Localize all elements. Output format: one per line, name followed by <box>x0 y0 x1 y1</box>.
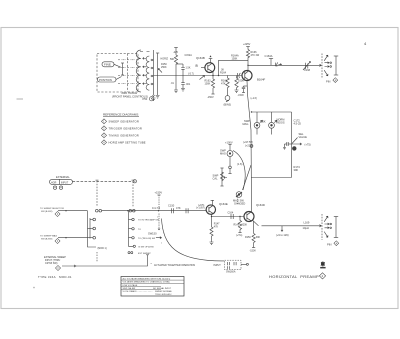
resistor label on right bus <box>294 165 301 172</box>
external sweep connector diamond <box>55 265 60 270</box>
left switch contact a <box>90 218 95 221</box>
trimmer capacitor C168 <box>303 62 311 72</box>
wafer right bus line <box>153 50 155 95</box>
reference item 2 <box>101 126 142 131</box>
right switch bus hook top <box>129 242 163 248</box>
svg-text:0.4-7.5: 0.4-7.5 <box>152 206 161 210</box>
svg-text:HORIZ AMP SETTING TUBE: HORIZ AMP SETTING TUBE <box>109 141 146 145</box>
svg-text:(+8.5): (+8.5) <box>198 204 205 207</box>
svg-text:(+75): (+75) <box>305 143 311 147</box>
svg-text:(MOD 1): (MOD 1) <box>98 247 107 250</box>
svg-text:VALUE: VALUE <box>299 135 308 139</box>
left switch contact c <box>88 236 96 239</box>
plug pin pair left <box>96 209 102 212</box>
svg-text:SWEEP GENERATOR: SWEEP GENERATOR <box>109 120 139 124</box>
svg-text:(BIAS): (BIAS) <box>224 103 232 107</box>
potentiometer R150 front panel <box>121 63 124 75</box>
emitter bus of Q164F down <box>247 81 252 212</box>
svg-text:-225: -225 <box>173 51 178 54</box>
svg-text:EXTERNAL: EXTERNAL <box>56 175 70 179</box>
dotted branch below input line with arrow <box>148 214 160 236</box>
svg-text:4.5-25: 4.5-25 <box>294 122 302 126</box>
grid input line to Q164F base <box>154 75 243 77</box>
svg-text:PIN: PIN <box>327 243 332 247</box>
output wire to upper deflection plate <box>248 64 322 66</box>
collector resistor R166 to +225V <box>243 43 260 70</box>
junction dot emitter bus <box>251 111 252 112</box>
svg-text:+: + <box>33 286 35 290</box>
svg-text:PIN: PIN <box>326 79 330 83</box>
scan artifact left margin <box>17 98 24 100</box>
potentiometer R150 250K <box>158 63 167 73</box>
svg-text:+150V: +150V <box>155 191 163 195</box>
caption front panel controls <box>112 91 148 98</box>
svg-text:(B): (B) <box>195 64 198 67</box>
svg-text:HORIZONTAL PREAMP: HORIZONTAL PREAMP <box>269 274 319 279</box>
ground below wafer bus <box>152 95 156 101</box>
svg-text:C150: C150 <box>168 204 175 208</box>
title block border <box>121 277 184 297</box>
mechanical linkage dash line <box>73 180 137 183</box>
collector of Q164B up with arrow <box>209 55 213 62</box>
svg-text:SWP CALIBR: SWP CALIBR <box>123 287 136 290</box>
svg-text:47K: 47K <box>221 82 226 86</box>
svg-text:50K: 50K <box>261 120 266 124</box>
wafer top ticks <box>140 51 150 53</box>
potentiometer R168 swp mag regis <box>243 112 266 133</box>
asterisk note <box>151 262 196 267</box>
dotted linkage below gain pot <box>237 198 239 205</box>
svg-text:3K: 3K <box>221 68 224 71</box>
output wire to lower deflection plate <box>262 225 322 227</box>
svg-text:SW150: SW150 <box>148 232 157 236</box>
svg-text:56K: 56K <box>170 58 175 61</box>
reference diagrams heading <box>103 113 139 117</box>
sel value pointer <box>292 132 307 144</box>
svg-text:Q164E: Q164E <box>219 202 228 206</box>
svg-text:NO SIGNAL INPUT: NO SIGNAL INPUT <box>153 287 172 290</box>
svg-text:C164A: C164A <box>265 54 273 58</box>
title diamond 4 <box>319 273 325 279</box>
svg-text:R150: R150 <box>245 236 251 239</box>
emitter of Q164B to line <box>212 71 214 75</box>
svg-text:C152A: C152A <box>185 54 193 57</box>
svg-text:SW (B-SW): SW (B-SW) <box>41 211 53 213</box>
svg-text:-150V: -150V <box>250 250 257 253</box>
svg-text:REGIS: REGIS <box>277 121 285 125</box>
svg-text:39K: 39K <box>256 236 261 239</box>
svg-text:47K: 47K <box>176 206 181 210</box>
input connector gap <box>0 0 1 1</box>
ganged sweep mag switch cluster <box>214 260 249 274</box>
svg-text:LINE VOLTAGE: LINE VOLTAGE <box>123 284 138 287</box>
external horiz input connector box <box>50 179 73 184</box>
right bus from mag loop <box>291 112 293 178</box>
emitter drop of Q164A <box>211 214 213 217</box>
svg-text:-150V: -150V <box>238 94 245 97</box>
svg-text:(+97.5V): (+97.5V) <box>243 140 253 144</box>
svg-text:39K: 39K <box>294 168 299 172</box>
svg-text:B164F: B164F <box>257 78 266 82</box>
svg-text:*: * <box>161 242 162 245</box>
reference item 4 <box>101 140 145 145</box>
wiper arrow on signal line <box>200 76 205 80</box>
linkage rows inside control box <box>118 60 137 84</box>
right switch contact 3 <box>129 233 165 240</box>
svg-text:SWEEP NORMAL: SWEEP NORMAL <box>155 290 173 293</box>
right switch bus <box>128 211 130 243</box>
ganged switch contact blob <box>233 192 245 206</box>
svg-text:Q164D: Q164D <box>256 203 265 207</box>
potentiometer R158 swp mag <box>220 141 242 174</box>
dashed divider line <box>127 54 129 93</box>
collector branch to output line <box>253 220 259 226</box>
labels on right bus top <box>294 119 302 126</box>
dashed linkage below left bus <box>96 252 98 262</box>
svg-text:(+9 to 129): (+9 to 129) <box>276 233 289 237</box>
svg-text:820K: 820K <box>242 224 248 227</box>
linkage tick at x97 <box>96 179 99 181</box>
label R164-1 <box>220 68 227 74</box>
CRT upper deflection plate connector <box>322 54 338 78</box>
svg-text:TO (TRIG IN) SW: TO (TRIG IN) SW <box>138 238 156 240</box>
svg-text:TRIGGER GENERATOR: TRIGGER GENERATOR <box>109 127 143 131</box>
resistor R154 56K <box>170 48 178 76</box>
supply tick above R150 pot <box>161 58 169 61</box>
external sweep input label <box>44 256 66 265</box>
svg-text:CRT-B SW): CRT-B SW) <box>45 262 58 265</box>
svg-text:HOR: HOR <box>51 181 57 184</box>
cathode resistor R148 to ground <box>210 216 221 245</box>
resistor R149 to -150V <box>234 216 248 237</box>
svg-text:B SW OF A SW: B SW OF A SW <box>139 245 155 248</box>
svg-text:CAL: CAL <box>213 177 219 181</box>
inline capacitor C160 on signal line <box>238 73 241 78</box>
svg-text:+225V: +225V <box>243 43 251 46</box>
input line 2 to sweep mag <box>40 235 88 244</box>
potentiometer R169 norm mag regis <box>269 112 285 133</box>
svg-text:TO SWEEP SELECTOR: TO SWEEP SELECTOR <box>40 208 64 210</box>
transistor Q164A <box>206 202 228 214</box>
svg-text:+100V: +100V <box>225 141 233 145</box>
linkage dashed drop x133 <box>132 182 134 207</box>
resistor R164 47K to bias pot <box>221 76 231 107</box>
front panel controls dashed enclosure <box>97 54 138 93</box>
svg-text:470 1W: 470 1W <box>251 54 260 57</box>
drafting stamp <box>320 261 325 268</box>
capacitor stub left of node <box>283 142 292 150</box>
left switch wiper bar <box>89 218 91 239</box>
capacitor C152 to ground <box>181 76 191 92</box>
wafer contact arrows <box>143 57 154 85</box>
svg-text:(1.6): (1.6) <box>237 162 242 166</box>
svg-text:EXT SWEEP: EXT SWEEP <box>138 253 151 255</box>
junction dots input line <box>127 210 159 211</box>
capacitor C166 emitter bypass to -150V <box>238 86 248 97</box>
label PIN upper connector <box>326 78 338 84</box>
linkage tick at x133 <box>132 179 135 181</box>
resistor R154 to ground under x176 <box>171 76 179 93</box>
input line 1 to sweep selector <box>40 208 88 217</box>
node arrow to test voltage <box>292 143 311 147</box>
svg-text:HORIZ: HORIZ <box>161 58 169 61</box>
ganged switch arc from mag pot <box>233 151 245 191</box>
svg-text:ALL VOLTAGES MEASURED WITH VOM: ALL VOLTAGES MEASURED WITH VOM 20,000 Ω <box>123 278 171 281</box>
svg-text:FINE: FINE <box>104 63 111 67</box>
svg-text:250K: 250K <box>161 66 167 69</box>
svg-text:47K: 47K <box>214 226 219 229</box>
svg-text:VOLTAGES MEASURED TO CHASSIS: VOLTAGES MEASURED TO CHASSIS (1) 117VAC <box>123 281 171 284</box>
svg-text:SW (B-SW): SW (B-SW) <box>41 238 53 240</box>
inline capacitor C151 <box>186 208 188 213</box>
svg-text:TRIG LEVEL ADJ: TRIG LEVEL ADJ <box>155 293 171 296</box>
stub with arrow on output line <box>276 226 289 237</box>
svg-text:V.O.M. READS - - - - - - - -: V.O.M. READS - - - - - - - - - - - - <box>123 290 153 293</box>
right switch contact 1 <box>129 216 160 221</box>
capacitor C154 series from resistor <box>176 54 192 76</box>
inductor label L169 <box>303 221 310 230</box>
pot feed vertical <box>156 53 160 98</box>
reference item 3 <box>101 133 138 138</box>
svg-text:R164: R164 <box>220 71 227 74</box>
svg-text:TO: TO <box>138 229 141 231</box>
transistor Q164B output <box>244 203 265 222</box>
labels below mag pots <box>243 140 253 148</box>
svg-text:INPUT: INPUT <box>214 264 222 267</box>
bottom of right bus to emitter bus <box>252 177 292 179</box>
tee to magnifier registration loop <box>252 111 292 113</box>
svg-text:100K: 100K <box>205 83 211 86</box>
svg-text:(+TG): (+TG) <box>236 234 243 237</box>
junction node on collector <box>247 65 248 66</box>
label PIN lower connector <box>327 241 339 247</box>
svg-text:MAG: MAG <box>220 152 226 156</box>
transistor Q164B input <box>196 56 215 73</box>
connector P50 label <box>143 97 154 101</box>
knob POSITION <box>98 77 122 83</box>
collector tick of Q164A <box>211 200 214 205</box>
svg-text:TO SWEEP MAG: TO SWEEP MAG <box>40 235 57 238</box>
svg-text:TIMING GENERATOR: TIMING GENERATOR <box>109 134 139 138</box>
heavy junction dot <box>292 146 296 150</box>
base voltage label <box>198 204 205 207</box>
title block row lines <box>121 280 184 289</box>
inline capacitor C150 <box>168 204 175 214</box>
long input line to Q164A grid <box>102 210 206 212</box>
svg-text:GANGED: GANGED <box>234 202 245 206</box>
cathode resistor R163 to -150V <box>205 76 215 99</box>
svg-text:Q164B: Q164B <box>196 56 205 60</box>
CRT lower deflection plate connector <box>322 214 338 240</box>
svg-text:L169: L169 <box>304 221 310 225</box>
svg-text:10µH: 10µH <box>303 226 309 230</box>
linkage arc to ganged switch <box>162 219 225 261</box>
junction dot emitter <box>212 75 213 76</box>
base stub of Q164B <box>195 64 205 67</box>
potentiometer swp cal <box>213 168 228 186</box>
svg-text:REFERENCE DIAGRAMS: REFERENCE DIAGRAMS <box>103 113 138 117</box>
svg-text:INPUT: INPUT <box>61 181 69 184</box>
resistor R165 100K to ground <box>235 76 245 93</box>
ext sweep contact <box>128 252 151 255</box>
external input jack circles <box>53 186 62 189</box>
switch wafer wavy column 1 <box>136 50 141 92</box>
right switch contact 2 <box>129 228 142 231</box>
svg-text:.001: .001 <box>186 83 191 86</box>
tap circle on emitter bus <box>250 145 253 148</box>
switch wafer wavy column 2 <box>146 56 149 90</box>
supply dotted branch above input line <box>155 191 163 211</box>
svg-text:100K: 100K <box>232 58 238 61</box>
trimmer capacitor C164A stub <box>265 54 282 66</box>
join line under mag pots <box>257 133 272 135</box>
feedback rise to collector rail <box>218 55 248 77</box>
external sweep wire <box>62 255 149 267</box>
svg-text:(+1.6): (+1.6) <box>251 97 258 100</box>
svg-text:C164: C164 <box>228 212 234 215</box>
svg-text:(-5.7): (-5.7) <box>188 72 194 75</box>
svg-text:SW160A: SW160A <box>226 271 236 274</box>
left switch bus <box>87 211 89 243</box>
emitter resistor R150B to -150V <box>245 221 260 253</box>
linkage dashed drop x97 <box>96 181 98 207</box>
svg-text:1.5K: 1.5K <box>186 67 191 70</box>
inline capacitor C164 coupling <box>228 212 234 220</box>
svg-text:MAG: MAG <box>243 122 249 126</box>
svg-text:R149: R149 <box>234 224 240 227</box>
knob FINE <box>102 62 122 68</box>
left switch contact b <box>88 227 96 230</box>
transistor Q164F <box>242 71 266 82</box>
svg-text:P50: P50 <box>143 97 148 101</box>
left switch bus hook <box>88 243 107 250</box>
svg-text:-150V: -150V <box>207 96 214 99</box>
ganged linkage line <box>243 165 252 190</box>
svg-text:POSITION: POSITION <box>99 78 112 82</box>
svg-text:C168: C168 <box>304 69 311 72</box>
svg-text:*: * <box>157 216 158 219</box>
coupling line Q164A to Q164B <box>212 216 245 218</box>
reference item 1 <box>101 119 139 124</box>
title block text rows <box>123 278 173 297</box>
label input level <box>152 206 181 210</box>
emitter bus labels <box>251 97 258 100</box>
svg-text:ACTUATED TOGETHER OPERATION: ACTUATED TOGETHER OPERATION <box>154 264 195 267</box>
svg-text:TYPE 316A MOD-01: TYPE 316A MOD-01 <box>38 275 72 279</box>
plug pin pair right <box>129 209 135 212</box>
